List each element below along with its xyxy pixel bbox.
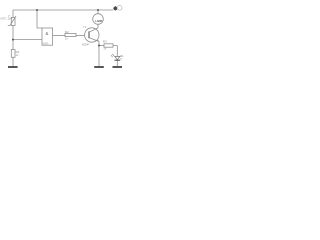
ground bar emitter [94,66,104,68]
ground bar LED [113,66,123,68]
svg-text:4093: 4093 [43,42,49,46]
supply plus blob [114,6,118,10]
resistor R3 body [104,44,113,47]
transistor T1 emitter line [89,38,99,42]
svg-text:R3: R3 [103,40,107,44]
node junction thermistor divider [12,39,14,41]
lamp LA1 circle [93,14,104,25]
svg-text:&: & [45,31,48,36]
transistor T1 circle [85,28,99,42]
AND gate U1 box [42,28,53,45]
wire R2 to base [76,35,85,37]
wire LED to ground [116,61,118,67]
wire top rail drop to gate upper input [37,10,42,28]
node junction emitter / R3 [98,45,100,47]
resistor R1 body [11,50,15,58]
node junction collector branch [97,9,99,11]
transistor T1 collector line [89,24,98,32]
svg-text:BC547: BC547 [82,43,90,46]
wire R1 to ground [12,57,14,66]
wire node down to R1 [12,40,14,50]
wire emitter down [98,41,100,66]
svg-text:R2: R2 [65,30,69,34]
wire thermistor top lead [12,10,14,18]
transistor T1 emitter arrowhead [97,40,99,42]
svg-text:T1: T1 [83,25,87,29]
wire emitter node to R3 [99,45,104,47]
wire thermistor bottom lead [12,26,14,40]
LED D1 arrows [111,54,114,57]
LED D1 triangle [115,56,120,59]
resistor R2 body [65,33,76,36]
svg-text:NTC 10k: NTC 10k [0,17,12,21]
transistor T1 base bar [88,31,90,38]
node junction gate drop [36,9,38,11]
supply terminal circle [117,5,122,10]
wire lamp top lead [97,10,99,14]
wire R3 to LED [113,46,117,57]
LED D1 cathode bar [114,59,120,61]
thermistor NTC body [11,18,15,26]
wire gate output [53,35,66,37]
wire node to gate lower input [13,39,42,41]
wire top supply rail [13,9,113,11]
thermistor diagonal stroke [8,16,16,25]
ground bar left [8,66,18,68]
svg-text:LAMP: LAMP [95,20,102,23]
